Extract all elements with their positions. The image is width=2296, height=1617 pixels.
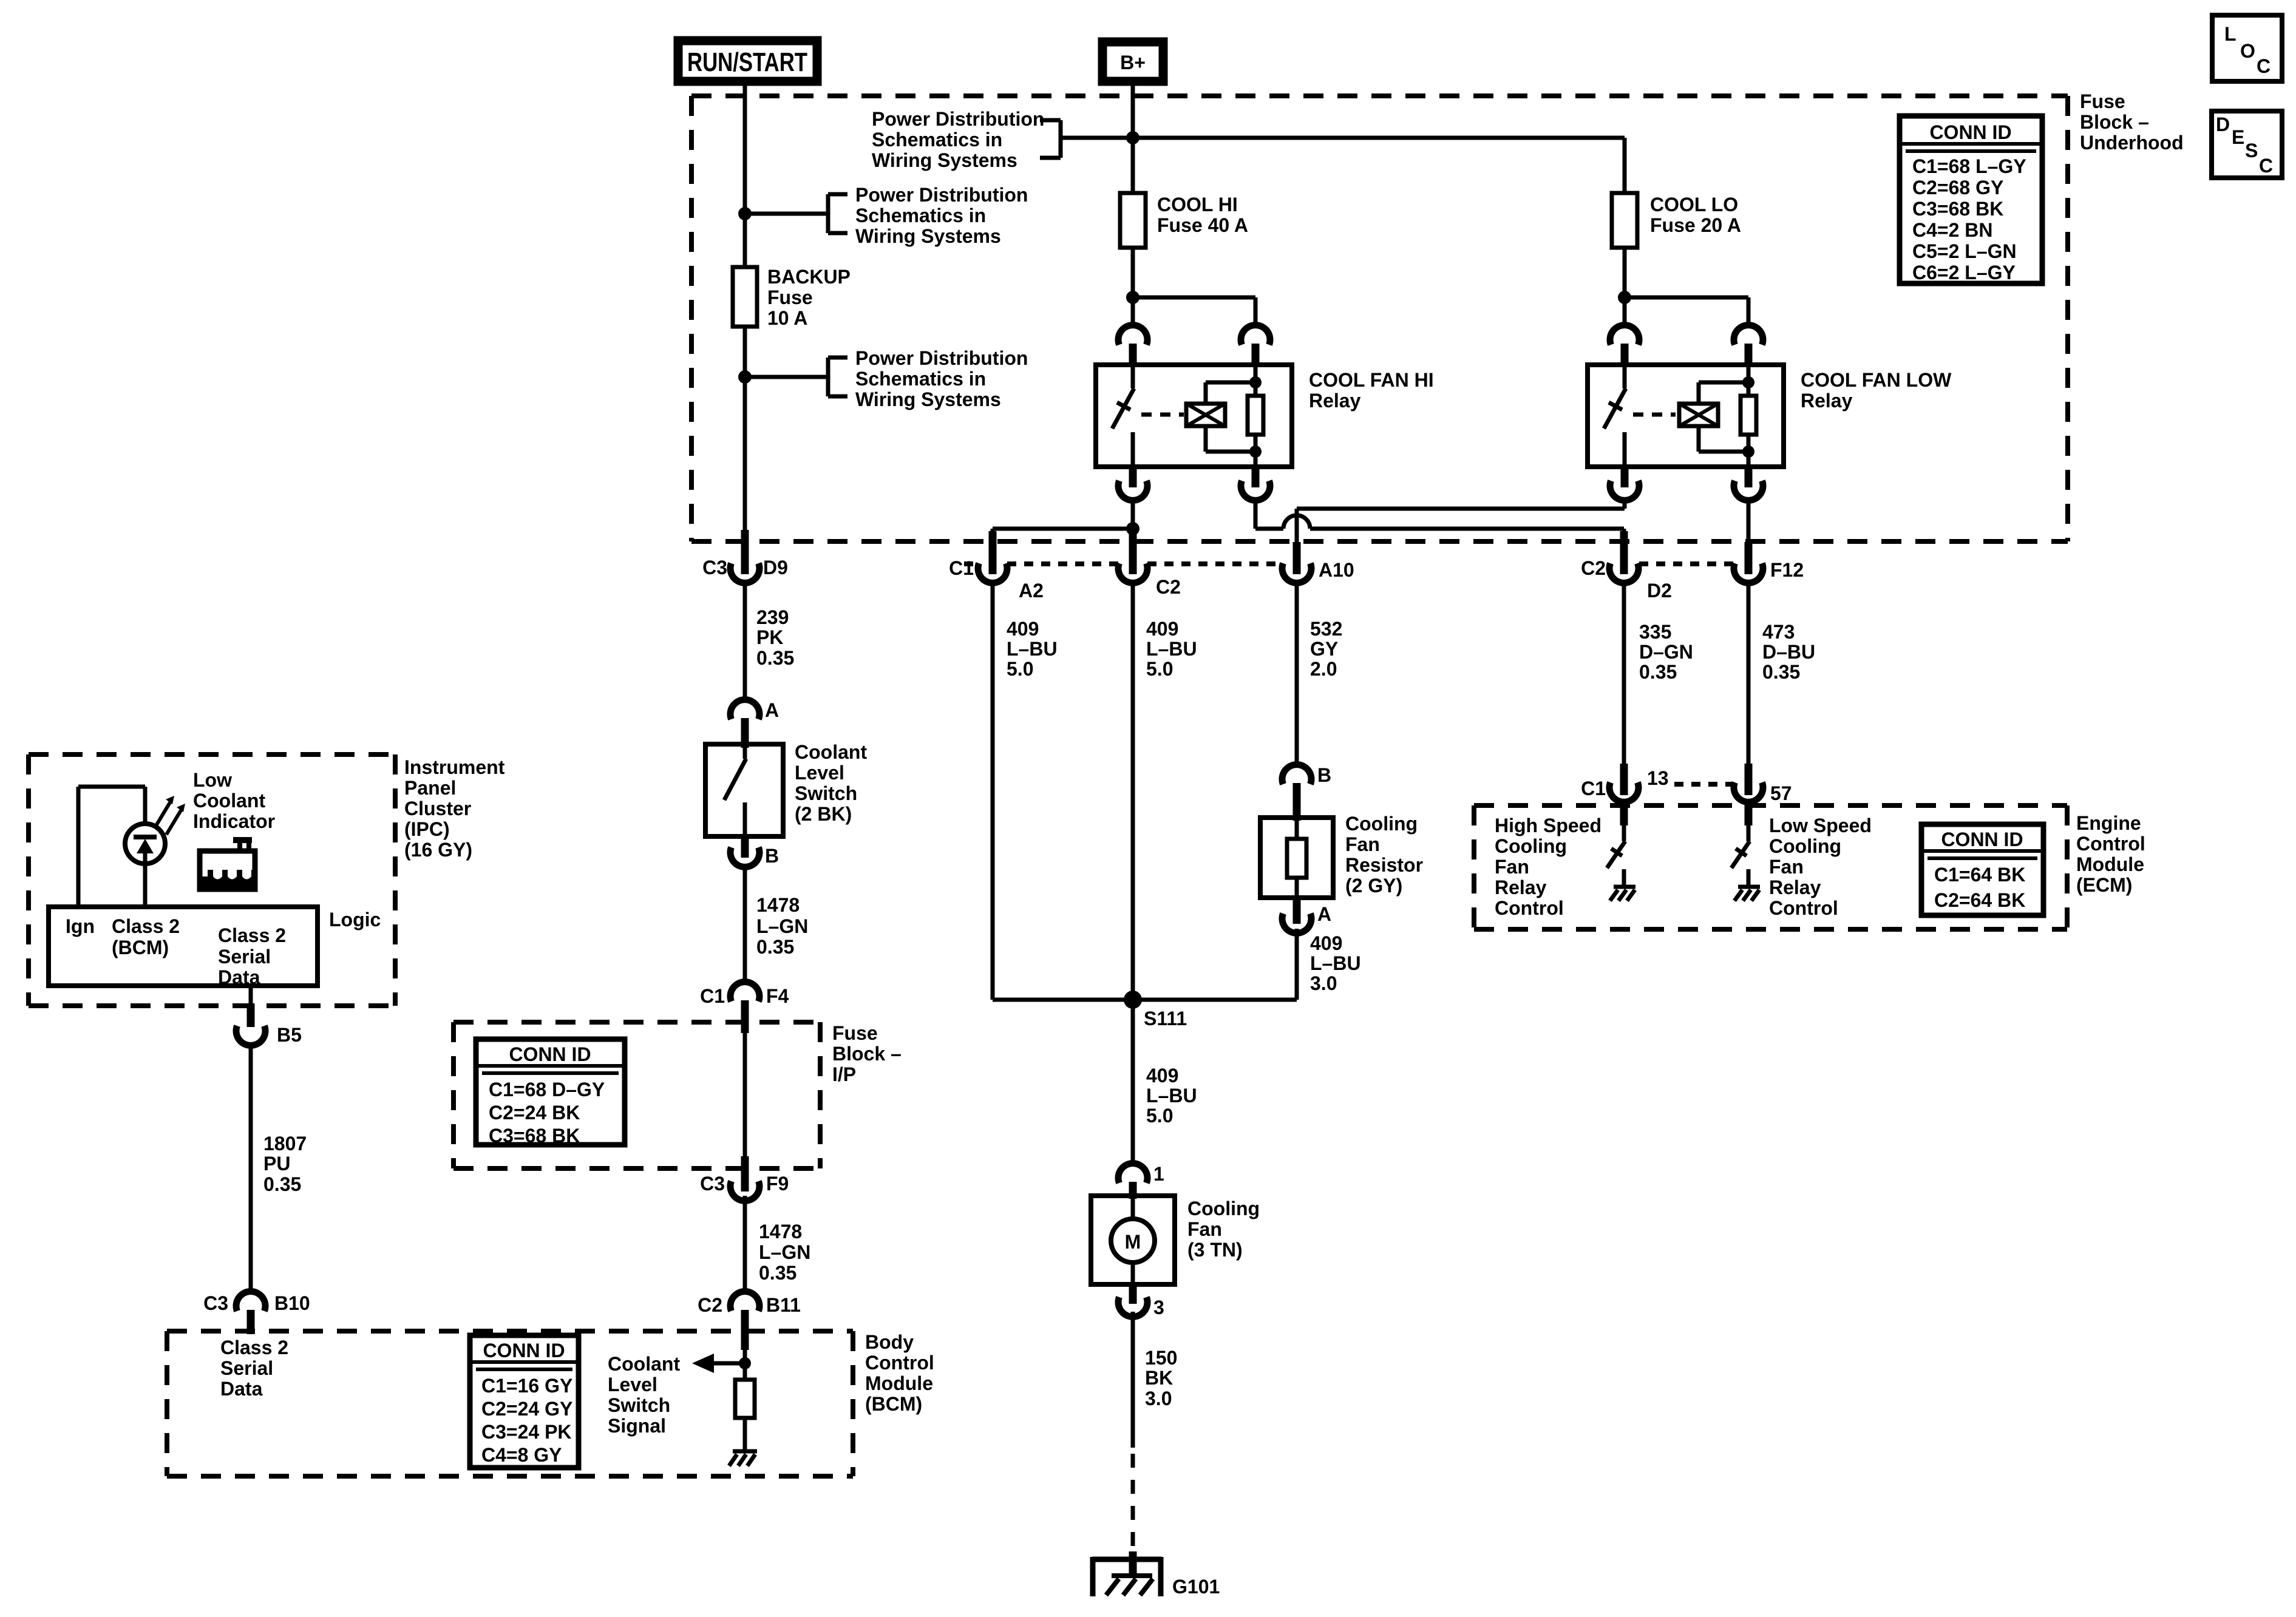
mechanical link [1633, 413, 1676, 417]
wire RUN/START down [743, 81, 747, 267]
svg-text:F12: F12 [1770, 559, 1804, 581]
svg-text:C2=24 GY: C2=24 GY [481, 1398, 572, 1420]
connector cavities at COOL FAN HI relay top [1118, 325, 1147, 345]
connector B5 [236, 986, 302, 1046]
svg-text:A2: A2 [1019, 580, 1044, 602]
power distribution note 2 [738, 184, 1028, 247]
splice S111 [993, 991, 1297, 1029]
svg-text:D: D [2216, 114, 2230, 135]
svg-text:Class 2: Class 2 [112, 915, 180, 937]
svg-text:C3=68 BK: C3=68 BK [489, 1125, 580, 1147]
svg-text:13: 13 [1647, 767, 1669, 789]
svg-text:C3=68 BK: C3=68 BK [1912, 198, 2003, 220]
svg-text:E: E [2232, 126, 2244, 148]
fuse COOL LO 20 A [1612, 193, 1741, 248]
connector A10 [1282, 542, 1354, 583]
pin B11 into BCM [741, 1310, 749, 1350]
svg-text:473: 473 [1762, 621, 1795, 643]
svg-text:D–GN: D–GN [1639, 641, 1693, 663]
svg-text:Engine: Engine [2076, 812, 2141, 834]
svg-text:S: S [2245, 140, 2258, 161]
svg-text:BACKUP: BACKUP [767, 266, 851, 288]
relay pins (bottom) [1621, 467, 1629, 487]
svg-text:Logic: Logic [329, 909, 381, 931]
wire 335 D-GN 0.35 [1624, 580, 1693, 768]
svg-text:3.0: 3.0 [1145, 1388, 1172, 1409]
connector C3 D9 [702, 530, 788, 583]
svg-text:Power Distribution: Power Distribution [855, 184, 1028, 206]
svg-text:Cooling: Cooling [1769, 835, 1841, 857]
svg-text:CONN ID: CONN ID [1941, 829, 2023, 850]
wire B+ down [1131, 81, 1135, 193]
svg-text:(3 TN): (3 TN) [1187, 1239, 1243, 1261]
svg-text:C2: C2 [1156, 576, 1181, 598]
svg-text:RUN/START: RUN/START [687, 47, 807, 77]
svg-text:B: B [1317, 764, 1331, 786]
svg-text:C1: C1 [1581, 778, 1606, 799]
wire LO relay coil to F12 [1747, 499, 1751, 546]
svg-text:3: 3 [1153, 1297, 1164, 1318]
svg-text:Fuse: Fuse [2080, 90, 2125, 112]
svg-text:L–BU: L–BU [1310, 952, 1361, 974]
svg-text:L–BU: L–BU [1146, 638, 1197, 660]
svg-text:C1: C1 [700, 985, 725, 1007]
svg-text:G101: G101 [1172, 1576, 1220, 1598]
relay coil [1679, 404, 1718, 426]
connector C1 13 [1581, 764, 1669, 825]
CONN ID table (fuse block underhood) [1900, 116, 2042, 283]
connector B (cooling fan resistor) [1282, 764, 1331, 821]
svg-text:COOL LO: COOL LO [1650, 194, 1738, 215]
svg-text:409: 409 [1146, 618, 1178, 640]
fuse block underhood dashed box [691, 96, 2068, 541]
fuse BACKUP 10 A [733, 266, 851, 329]
relay COOL FAN HI [1096, 325, 1434, 501]
svg-text:57: 57 [1770, 782, 1792, 804]
coolant level switch [705, 741, 867, 836]
svg-text:Fan: Fan [1187, 1218, 1222, 1240]
svg-text:L–BU: L–BU [1146, 1085, 1197, 1107]
svg-text:BK: BK [1145, 1367, 1173, 1389]
svg-text:C3: C3 [700, 1173, 725, 1195]
LOC box [2212, 15, 2282, 81]
svg-text:L: L [2224, 23, 2237, 45]
svg-text:Serial: Serial [218, 946, 271, 968]
svg-text:Fuse 20 A: Fuse 20 A [1650, 214, 1741, 236]
svg-text:B: B [765, 845, 779, 867]
connector C3 F9 [700, 1156, 789, 1201]
svg-text:CONN ID: CONN ID [483, 1340, 565, 1361]
svg-text:PK: PK [756, 626, 783, 648]
connector C2 (409 feed) [1118, 531, 1181, 598]
svg-text:10 A: 10 A [767, 307, 807, 329]
svg-text:Wiring Systems: Wiring Systems [855, 225, 1001, 247]
svg-text:A10: A10 [1319, 559, 1354, 581]
svg-text:0.35: 0.35 [1639, 661, 1677, 683]
ground G101 [1092, 1551, 1220, 1598]
ground (BCM internal) [729, 1451, 757, 1466]
ground (ECM low speed) [1734, 887, 1760, 901]
svg-text:COOL FAN LOW: COOL FAN LOW [1801, 369, 1952, 391]
svg-text:1807: 1807 [263, 1133, 307, 1154]
svg-text:(2 GY): (2 GY) [1345, 875, 1402, 897]
relay pins (top) [1129, 344, 1137, 367]
LED low coolant indicator [125, 796, 185, 864]
svg-text:Switch: Switch [608, 1394, 670, 1416]
svg-text:F9: F9 [766, 1173, 789, 1195]
svg-text:Cooling: Cooling [1187, 1198, 1260, 1219]
svg-text:Panel: Panel [404, 777, 456, 799]
connector group dashed line D2-F12 [1639, 561, 1734, 566]
svg-text:Module: Module [2076, 853, 2144, 875]
svg-text:Schematics in: Schematics in [855, 205, 986, 226]
svg-text:409: 409 [1146, 1065, 1178, 1086]
svg-text:(BCM): (BCM) [112, 937, 169, 958]
svg-text:C6=2 L–GY: C6=2 L–GY [1912, 262, 2016, 283]
label low coolant indicator [193, 769, 275, 832]
svg-text:B+: B+ [1120, 52, 1146, 73]
svg-text:C5=2 L–GN: C5=2 L–GN [1912, 240, 2017, 262]
svg-text:C1=68 L–GY: C1=68 L–GY [1912, 155, 2026, 177]
relay switch contact [1131, 365, 1135, 388]
wire A2 down to S111 [991, 580, 995, 1000]
svg-text:409: 409 [1310, 932, 1342, 954]
svg-text:0.35: 0.35 [756, 647, 794, 669]
svg-text:335: 335 [1639, 621, 1671, 643]
svg-text:O: O [2240, 40, 2255, 62]
CONN ID table (fuse block I/P) [476, 1039, 625, 1147]
svg-text:C: C [2259, 155, 2273, 177]
svg-text:Fuse: Fuse [767, 286, 813, 308]
instrument panel cluster dashed box [29, 754, 505, 1006]
svg-text:0.35: 0.35 [756, 936, 794, 958]
svg-text:Class 2: Class 2 [218, 924, 286, 946]
wire C2 down to S111 [1131, 580, 1135, 1000]
svg-text:5.0: 5.0 [1146, 1105, 1173, 1127]
wire HI relay switch output to A2/C2 [993, 499, 1140, 546]
label class 2 serial data (BCM) [220, 1337, 288, 1400]
power feed box RUN/START [678, 41, 817, 81]
svg-text:C1=68 D–GY: C1=68 D–GY [489, 1079, 605, 1100]
svg-text:C1=64 BK: C1=64 BK [1934, 864, 2025, 886]
svg-text:Relay: Relay [1801, 390, 1853, 412]
svg-text:C3=24 PK: C3=24 PK [481, 1421, 572, 1443]
relay pins (top) [1621, 344, 1629, 367]
svg-text:(2 BK): (2 BK) [795, 803, 852, 825]
svg-text:Body: Body [865, 1331, 914, 1353]
svg-text:Serial: Serial [220, 1357, 273, 1379]
svg-text:Cluster: Cluster [404, 798, 471, 819]
svg-text:L–GN: L–GN [759, 1241, 810, 1263]
BCM input resistor to ground [735, 1350, 755, 1451]
mechanical link [1141, 413, 1184, 417]
svg-text:Resistor: Resistor [1345, 854, 1423, 876]
svg-text:L–BU: L–BU [1007, 638, 1058, 660]
svg-text:C2: C2 [1581, 557, 1606, 579]
svg-text:Coolant: Coolant [193, 790, 265, 812]
svg-text:0.35: 0.35 [759, 1262, 796, 1284]
svg-text:GY: GY [1310, 638, 1338, 660]
power feed box B+ [1102, 42, 1163, 81]
svg-text:Power Distribution: Power Distribution [855, 347, 1028, 369]
svg-text:Module: Module [865, 1372, 933, 1394]
svg-text:Low Speed: Low Speed [1769, 815, 1872, 836]
label high speed cooling fan relay control [1495, 815, 1601, 919]
svg-text:(IPC): (IPC) [404, 818, 450, 840]
svg-text:Switch: Switch [795, 782, 857, 804]
connector group dashed line C1-A10 [964, 561, 979, 566]
svg-text:D2: D2 [1647, 580, 1672, 602]
connector B (coolant level switch) [730, 836, 779, 867]
svg-text:Relay: Relay [1769, 876, 1821, 898]
svg-text:0.35: 0.35 [263, 1173, 301, 1195]
wire HI relay coil to D2 (with hop over A10 wire) [1255, 499, 1624, 546]
coil junction dots [1742, 376, 1754, 388]
svg-text:C2=24 BK: C2=24 BK [489, 1102, 580, 1124]
wire COOL LO fuse to relay [1618, 138, 1748, 325]
svg-text:D–BU: D–BU [1762, 641, 1815, 663]
svg-text:D9: D9 [763, 557, 788, 578]
svg-text:Relay: Relay [1309, 390, 1361, 412]
power distribution note 3 [738, 347, 1028, 410]
svg-text:C1=16 GY: C1=16 GY [481, 1375, 572, 1397]
svg-text:PU: PU [263, 1153, 290, 1175]
svg-text:Schematics in: Schematics in [855, 368, 986, 390]
svg-text:I/P: I/P [832, 1063, 856, 1085]
svg-text:(16 GY): (16 GY) [404, 839, 472, 861]
wire loop Ign to LED [78, 787, 145, 907]
connector C2 B11 [698, 1292, 801, 1316]
svg-text:5.0: 5.0 [1146, 658, 1173, 680]
wire B+ horizontal feed [1133, 136, 1625, 140]
svg-text:Underhood: Underhood [2080, 132, 2184, 154]
svg-text:(ECM): (ECM) [2076, 874, 2132, 896]
svg-text:Wiring Systems: Wiring Systems [855, 388, 1001, 410]
svg-text:Fan: Fan [1495, 856, 1529, 878]
ground (ECM high speed) [1610, 887, 1635, 901]
fuse block I/P dashed box [453, 1022, 902, 1168]
wire A10 down to resistor [1295, 580, 1299, 766]
label low speed cooling fan relay control [1769, 815, 1872, 919]
connector C2 D2 [1581, 531, 1672, 602]
svg-text:Fan: Fan [1769, 856, 1804, 878]
wire LO relay switch output to A10 [1297, 499, 1625, 546]
svg-text:Instrument: Instrument [404, 756, 505, 778]
cooling fan resistor [1260, 813, 1423, 898]
cooling fan motor [1091, 1196, 1260, 1284]
CONN ID table (BCM) [470, 1335, 579, 1468]
svg-text:M: M [1125, 1231, 1141, 1253]
connector F12 [1734, 542, 1804, 583]
engine control module dashed box [1474, 805, 2145, 929]
svg-text:Schematics in: Schematics in [872, 129, 1002, 151]
connector C3 B10 [203, 1292, 310, 1334]
svg-text:Class 2: Class 2 [220, 1337, 288, 1358]
svg-text:C4=8 GY: C4=8 GY [481, 1444, 562, 1466]
svg-text:COOL HI: COOL HI [1157, 194, 1238, 215]
svg-text:B11: B11 [766, 1294, 801, 1316]
wire 409 L-BU 3.0 (resistor to S111) [1297, 929, 1361, 1000]
svg-text:CONN ID: CONN ID [509, 1043, 591, 1065]
relay case [1588, 365, 1784, 467]
svg-text:Data: Data [218, 966, 260, 988]
connector A (coolant level switch) [730, 699, 779, 748]
ECM driver switch (high speed) [1607, 825, 1625, 887]
label 409 L-BU 5.0 (C2) [1146, 618, 1197, 680]
svg-text:0.35: 0.35 [1762, 661, 1800, 683]
relay pins (bottom) [1129, 467, 1137, 487]
coil suppression resistor [1741, 396, 1756, 435]
svg-text:Wiring Systems: Wiring Systems [872, 149, 1017, 171]
svg-text:Cooling: Cooling [1495, 835, 1567, 857]
svg-text:C2: C2 [698, 1294, 722, 1316]
svg-text:C1: C1 [949, 557, 974, 579]
power distribution note 1 [872, 108, 1131, 171]
svg-text:1478: 1478 [759, 1221, 802, 1242]
label Fuse Block Underhood [2080, 90, 2184, 154]
svg-text:532: 532 [1310, 618, 1342, 640]
svg-text:Coolant: Coolant [608, 1353, 680, 1375]
svg-text:C3: C3 [203, 1292, 228, 1314]
svg-text:C3: C3 [702, 557, 727, 578]
svg-text:Coolant: Coolant [795, 741, 867, 763]
svg-text:Low: Low [193, 769, 232, 791]
svg-text:5.0: 5.0 [1007, 658, 1033, 680]
CONN ID table (ECM) [1921, 824, 2043, 915]
svg-text:Fan: Fan [1345, 833, 1380, 855]
connector A (cooling fan resistor) [1282, 895, 1331, 933]
svg-text:B5: B5 [277, 1024, 302, 1046]
svg-text:C: C [2257, 55, 2271, 77]
fuse COOL HI 40 A [1120, 193, 1248, 248]
connector cavities at COOL FAN HI relay bottom [1118, 481, 1147, 500]
wire 1478 L-GN 0.35 (upper) [745, 868, 808, 982]
svg-text:COOL FAN HI: COOL FAN HI [1309, 369, 1434, 391]
svg-text:C4=2 BN: C4=2 BN [1912, 219, 1993, 241]
wire 1478 L-GN 0.35 (lower) [745, 1196, 810, 1293]
wire 409 L-BU 5.0 (S111 to fan) [1133, 1000, 1197, 1165]
svg-text:Cooling: Cooling [1345, 813, 1418, 835]
svg-text:S111: S111 [1144, 1008, 1187, 1029]
svg-text:Data: Data [220, 1378, 263, 1400]
ECM driver switch (low speed) [1731, 825, 1750, 887]
coil junction dots [1249, 376, 1262, 388]
wire COOL HI fuse to relay [1126, 248, 1255, 325]
wire below backup fuse [743, 327, 747, 533]
wire 150 BK 3.0 [1133, 1312, 1177, 1448]
svg-text:C2=68 GY: C2=68 GY [1912, 177, 2003, 198]
label coolant level switch signal + arrow [608, 1353, 745, 1437]
svg-text:1: 1 [1153, 1163, 1164, 1185]
body control module dashed box [167, 1331, 934, 1476]
connector cavities at COOL FAN LOW relay bottom [1610, 481, 1639, 500]
svg-text:Block –: Block – [2080, 111, 2149, 133]
svg-text:409: 409 [1007, 618, 1039, 640]
connector C1 A2 [949, 531, 1044, 602]
wire 239 PK 0.35 [745, 580, 794, 701]
svg-text:Control: Control [865, 1352, 934, 1374]
connector 3 (cooling fan) [1118, 1284, 1164, 1318]
svg-text:Power Distribution: Power Distribution [872, 108, 1044, 130]
relay COOL FAN LOW [1588, 325, 1952, 501]
svg-text:Indicator: Indicator [193, 810, 275, 832]
svg-text:Control: Control [2076, 833, 2145, 855]
svg-text:F4: F4 [766, 985, 789, 1007]
relay case [1096, 365, 1292, 467]
svg-text:1478: 1478 [756, 894, 800, 916]
svg-text:A: A [765, 699, 779, 721]
svg-text:Block –: Block – [832, 1043, 902, 1065]
wire 1807 PU 0.35 [251, 1044, 307, 1293]
svg-text:Relay: Relay [1495, 876, 1547, 898]
svg-text:3.0: 3.0 [1310, 972, 1337, 994]
svg-text:Control: Control [1495, 897, 1564, 919]
junction dot B+ feed [1126, 131, 1140, 144]
DESC box [2212, 111, 2282, 178]
svg-text:L–GN: L–GN [756, 915, 808, 937]
svg-text:High Speed: High Speed [1495, 815, 1601, 836]
coolant reservoir icon [200, 837, 255, 889]
connector 1 (cooling fan) [1118, 1163, 1164, 1199]
svg-text:150: 150 [1145, 1347, 1177, 1369]
connector 57 [1734, 764, 1792, 825]
svg-text:2.0: 2.0 [1310, 658, 1337, 680]
IPC logic box [49, 907, 381, 988]
wire through I/P fuse block [743, 1032, 747, 1161]
label 409 L-BU 5.0 (A2) [1007, 618, 1058, 680]
svg-text:C2=64 BK: C2=64 BK [1934, 889, 2025, 911]
svg-text:A: A [1317, 903, 1331, 925]
connector group dashed line 13-57 [1674, 782, 1734, 787]
svg-text:Level: Level [608, 1374, 657, 1395]
svg-text:Fuse 40 A: Fuse 40 A [1157, 214, 1248, 236]
connector C1 F4 [700, 982, 789, 1033]
svg-text:239: 239 [756, 606, 789, 628]
svg-text:Level: Level [795, 762, 844, 784]
svg-text:Control: Control [1769, 897, 1838, 919]
svg-text:Signal: Signal [608, 1415, 666, 1437]
connector cavities at COOL FAN LOW relay top [1610, 325, 1639, 345]
label 532 GY 2.0 [1310, 618, 1342, 680]
wire 473 D-BU 0.35 [1748, 580, 1815, 768]
coil suppression resistor [1248, 396, 1263, 435]
relay coil [1186, 404, 1225, 426]
svg-text:B10: B10 [274, 1292, 310, 1314]
svg-text:CONN ID: CONN ID [1929, 121, 2011, 143]
svg-text:Fuse: Fuse [832, 1022, 878, 1044]
svg-text:(BCM): (BCM) [865, 1393, 922, 1415]
dashed wire to G101 [1131, 1454, 1135, 1551]
svg-text:Ign: Ign [66, 915, 95, 937]
relay switch contact [1623, 365, 1627, 388]
